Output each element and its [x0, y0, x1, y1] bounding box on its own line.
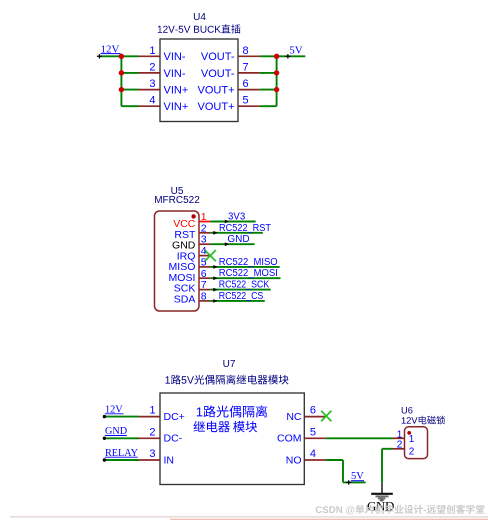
svg-text:RC522_RST: RC522_RST [219, 223, 271, 234]
svg-text:IN: IN [164, 454, 175, 466]
svg-text:3: 3 [201, 234, 207, 246]
svg-text:2: 2 [397, 439, 403, 450]
svg-text:7: 7 [201, 279, 207, 291]
svg-text:VOUT+: VOUT+ [198, 101, 235, 113]
svg-text:2: 2 [409, 446, 415, 457]
svg-text:2: 2 [201, 222, 207, 234]
svg-text:3V3: 3V3 [228, 212, 246, 223]
svg-text:1: 1 [409, 434, 415, 445]
svg-text:MFRC522: MFRC522 [154, 195, 200, 206]
svg-text:3: 3 [149, 78, 155, 90]
svg-text:VOUT-: VOUT- [201, 68, 235, 80]
svg-text:8: 8 [201, 290, 207, 302]
svg-text:U7: U7 [223, 359, 236, 370]
svg-text:VIN-: VIN- [164, 68, 186, 80]
svg-text:DC-: DC- [164, 433, 183, 445]
svg-text:1: 1 [149, 45, 155, 57]
svg-text:RC522_MOSI: RC522_MOSI [219, 268, 278, 279]
svg-text:COM: COM [277, 433, 302, 445]
svg-text:RC522_CS: RC522_CS [219, 291, 264, 302]
svg-text:U4: U4 [193, 12, 206, 23]
svg-text:RC522_SCK: RC522_SCK [219, 280, 270, 291]
svg-text:3: 3 [149, 448, 155, 460]
svg-text:RC522_MISO: RC522_MISO [219, 257, 278, 268]
svg-text:4: 4 [149, 95, 155, 107]
svg-text:2: 2 [149, 61, 155, 73]
svg-text:4: 4 [310, 448, 316, 460]
svg-text:6: 6 [310, 405, 316, 417]
svg-text:5: 5 [310, 426, 316, 438]
svg-text:VOUT+: VOUT+ [198, 85, 235, 97]
svg-text:5: 5 [201, 256, 207, 268]
svg-text:VIN+: VIN+ [164, 101, 189, 113]
svg-text:1: 1 [149, 405, 155, 417]
svg-text:VIN+: VIN+ [164, 85, 189, 97]
svg-text:8: 8 [243, 45, 249, 57]
svg-text:1: 1 [201, 211, 207, 223]
svg-text:2: 2 [149, 426, 155, 438]
svg-text:SDA: SDA [174, 293, 196, 305]
svg-text:7: 7 [243, 61, 249, 73]
svg-text:DC+: DC+ [164, 411, 185, 423]
svg-text:NC: NC [286, 411, 302, 423]
svg-text:5: 5 [243, 95, 249, 107]
svg-text:5V: 5V [289, 45, 303, 57]
svg-text:4: 4 [201, 245, 207, 257]
svg-text:VIN-: VIN- [164, 51, 186, 63]
svg-text:U6: U6 [401, 406, 413, 416]
svg-text:NO: NO [286, 454, 302, 466]
svg-text:GND: GND [227, 234, 249, 245]
svg-text:VOUT-: VOUT- [201, 51, 235, 63]
svg-text:6: 6 [243, 78, 249, 90]
svg-text:6: 6 [201, 268, 207, 280]
